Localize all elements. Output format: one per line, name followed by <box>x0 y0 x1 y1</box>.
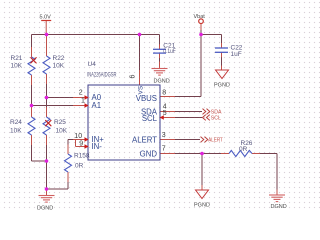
svg-text:3: 3 <box>162 132 166 139</box>
svg-text:1uF: 1uF <box>231 51 242 58</box>
svg-text:PGND: PGND <box>194 203 210 209</box>
svg-text:DGND: DGND <box>37 206 53 212</box>
svg-text:10K: 10K <box>53 63 65 70</box>
svg-text:A1: A1 <box>92 101 102 110</box>
svg-text:5: 5 <box>163 110 167 117</box>
svg-text:IN-: IN- <box>92 142 103 151</box>
svg-text:7: 7 <box>162 146 166 153</box>
svg-text:0.1uF: 0.1uF <box>163 48 176 55</box>
svg-text:VS: VS <box>138 85 145 94</box>
svg-text:DGND: DGND <box>154 78 170 84</box>
svg-text:SCL: SCL <box>211 115 221 121</box>
svg-text:R24: R24 <box>10 119 22 126</box>
svg-text:R22: R22 <box>53 55 65 62</box>
svg-text:SCL: SCL <box>142 114 158 123</box>
svg-text:2: 2 <box>79 89 83 96</box>
svg-text:ALERT: ALERT <box>132 135 157 144</box>
svg-text:10K: 10K <box>11 63 23 70</box>
svg-text:10K: 10K <box>56 128 68 135</box>
svg-text:0R: 0R <box>75 163 84 170</box>
svg-text:0R: 0R <box>239 146 248 153</box>
svg-text:PGND: PGND <box>214 83 230 89</box>
svg-text:R158: R158 <box>74 153 90 160</box>
svg-text:GND: GND <box>140 149 158 158</box>
svg-text:8: 8 <box>162 89 166 96</box>
svg-text:U4: U4 <box>88 61 97 68</box>
svg-text:10K: 10K <box>10 128 22 135</box>
svg-text:10: 10 <box>74 133 82 140</box>
svg-text:6: 6 <box>130 75 137 79</box>
svg-text:ALERT: ALERT <box>208 137 223 143</box>
svg-text:1: 1 <box>81 98 85 105</box>
svg-text:9: 9 <box>79 140 83 147</box>
svg-text:Vbat: Vbat <box>194 14 206 20</box>
svg-text:R21: R21 <box>11 55 23 62</box>
svg-text:DGND: DGND <box>271 204 287 210</box>
svg-text:INA226AIDGSR: INA226AIDGSR <box>87 71 117 78</box>
svg-text:R25: R25 <box>54 119 66 126</box>
svg-text:5.0V: 5.0V <box>40 15 52 21</box>
